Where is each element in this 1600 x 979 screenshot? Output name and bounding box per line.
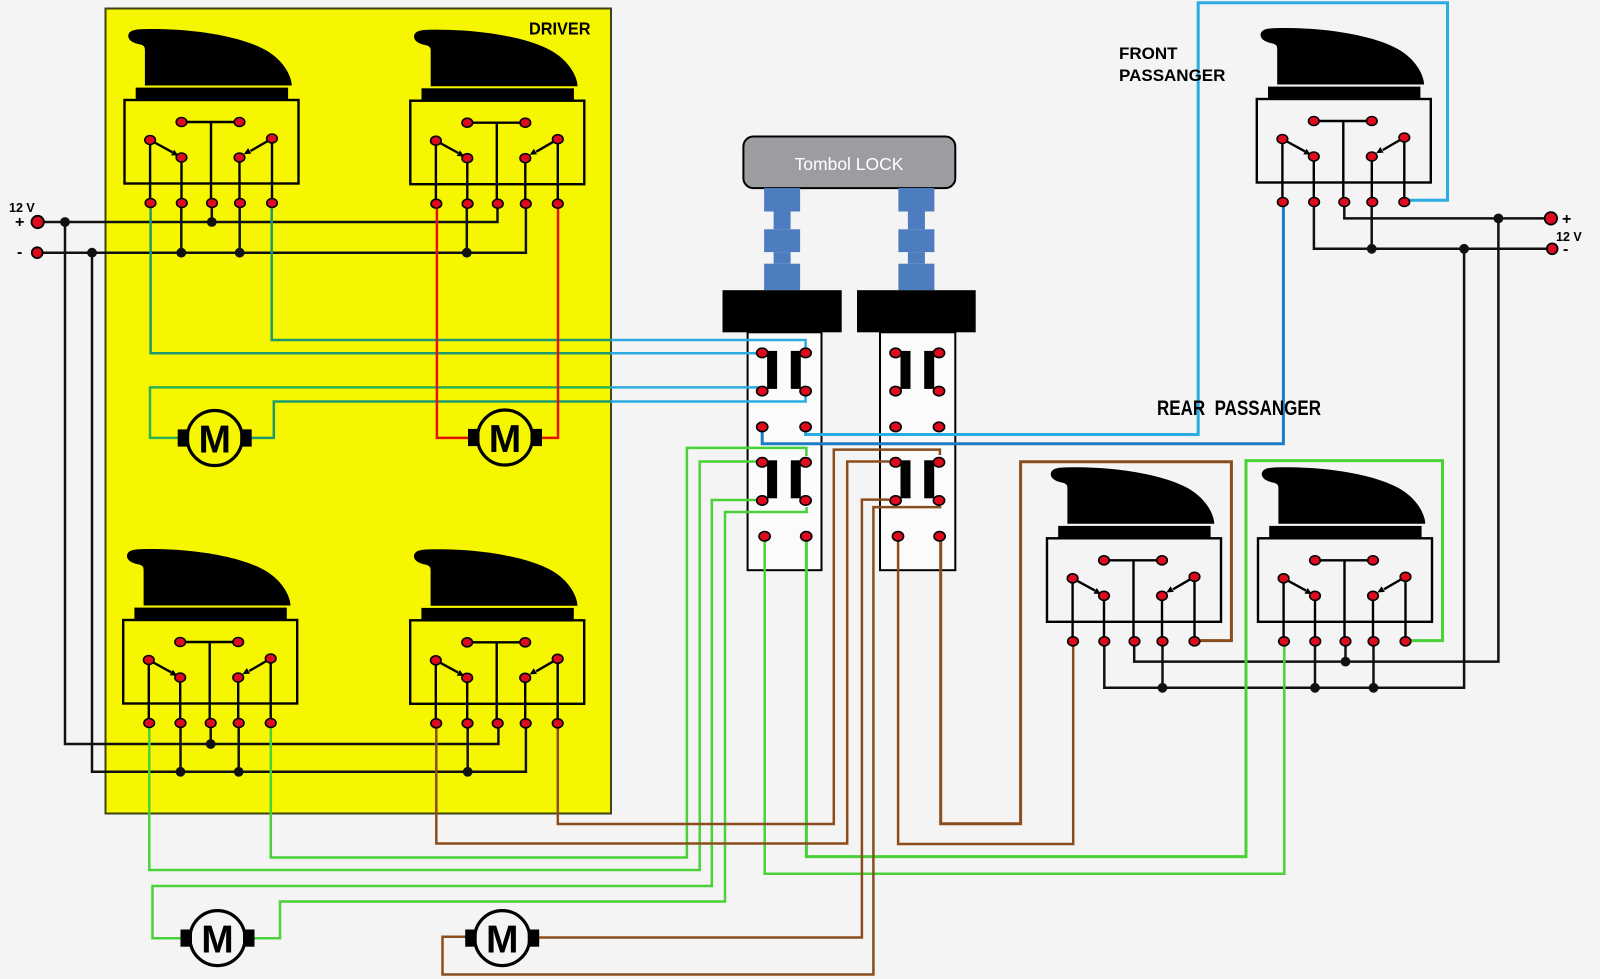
wire motor4 left to connector B lower bot-right (brown): [443, 506, 941, 975]
svg-text:FRONT: FRONT: [1119, 44, 1178, 63]
wire connector B bottom-right to rear1 pin5 loop (brown): [941, 462, 1232, 824]
motor M1 (driver window): [178, 411, 252, 466]
wire sw2 pin1 to motor2 left (red): [437, 204, 468, 438]
wire sw2 pin5 to motor2 right (red): [542, 204, 558, 438]
wire rear2 pin4 drop: [1372, 642, 1375, 688]
rocker switch SW4 (driver rear-right): [410, 549, 584, 728]
junction dot + bus / left drop: [60, 217, 70, 227]
Tombol LOCK button box: [743, 137, 955, 189]
wire connector A bottom-left to rear2 pin1 (green): [765, 541, 1285, 874]
junction dot - bus / left drop: [87, 248, 97, 258]
wire motor1 left to connector A (yellow part): [150, 387, 611, 438]
wire motor1 right to connector A (yellow part): [251, 402, 611, 438]
lock connector stem A (blue): [764, 188, 800, 290]
junction dot lower - bus / sw3 pin2: [176, 767, 186, 777]
wire sw3 pin2 drop: [179, 724, 182, 772]
wire front passanger pin3 to 12V+: [1344, 203, 1545, 218]
svg-text:PASSANGER: PASSANGER: [1119, 66, 1225, 85]
wire connector A mid-left to front passanger pin1 (blue): [762, 203, 1283, 444]
wire rear2 pin2 drop: [1314, 642, 1317, 688]
junction dot right - / fp pin4: [1367, 244, 1377, 254]
wire motor1 right to connector A (white part): [611, 396, 806, 402]
wire rear1 pin4 drop: [1161, 642, 1164, 688]
wire sw3 pin5 to connector A lower top-right (green): [271, 448, 807, 858]
wire motor3 right to connector A lower bot-right (green): [249, 507, 807, 938]
connector B cap (black): [857, 290, 976, 332]
wire motor1 left to connector A (white part): [611, 387, 761, 389]
junction dot rear2 pin4: [1369, 683, 1379, 693]
wire + bus from 12V+ to driver sw2 pin3: [43, 205, 498, 222]
lock connector stem B (blue): [898, 188, 934, 290]
svg-text:DRIVER: DRIVER: [529, 19, 591, 39]
junction dot - bus / sw2 pin2: [462, 248, 472, 258]
wire rear2 pin3 drop: [1344, 642, 1347, 662]
connector B contacts: [890, 348, 945, 541]
svg-text:-: -: [17, 244, 22, 261]
wire sw3 pin4 drop: [237, 724, 240, 772]
wire right + feed down to rear sw pin3 line: [1134, 218, 1498, 661]
12V left + terminal: [32, 216, 44, 228]
12V left - terminal: [32, 247, 43, 258]
wire sw3 pin1 to connector A lower top-left (green): [149, 462, 756, 871]
junction dot rear2 pin3: [1341, 657, 1351, 667]
rocker switch REAR2 (rear passanger right): [1258, 467, 1432, 646]
junction dot - bus / sw1 pin4: [235, 248, 245, 258]
wire sw2 pin2 drop: [466, 204, 469, 253]
junction dot lower + bus / sw3 pin3: [206, 739, 216, 749]
wire sw4 pin5 to connector B lower top-right (brown): [558, 450, 940, 824]
wire sw4 pin2 drop: [466, 724, 469, 772]
svg-text:Tombol LOCK: Tombol LOCK: [795, 154, 904, 174]
svg-text:12 V: 12 V: [1556, 230, 1582, 244]
connector B body: [880, 332, 955, 570]
junction dot - bus / sw1 pin2: [176, 248, 186, 258]
junction dot right - / drop: [1459, 244, 1469, 254]
rocker switch REAR1 (rear passanger left): [1047, 467, 1221, 646]
wire right - feed down to rear sw pin2/4 line: [1104, 249, 1464, 688]
wire + feed to lower row (left vertical): [65, 222, 498, 744]
wire sw1 pin5 to connector A (yellow part): [272, 204, 611, 340]
svg-text:12 V: 12 V: [9, 201, 35, 215]
svg-text:+: +: [1562, 211, 1571, 228]
rocker switch SW3 (driver rear-left): [123, 549, 297, 728]
wire motor3 left to connector A lower bot-left (green): [153, 500, 757, 938]
wire - bus from 12V- to driver sw2 pin4: [42, 205, 526, 253]
wire sw1 pin4 drop: [238, 204, 241, 253]
junction dot lower - bus / sw4 pin2: [463, 767, 473, 777]
rocker switch SW1 (driver front-left): [125, 29, 299, 208]
rocker switch SW2 (driver front-right): [410, 30, 584, 209]
wire connector A bottom-right to rear2 pin5 loop (green): [806, 461, 1442, 857]
svg-text:+: +: [15, 214, 24, 231]
svg-text:REAR PASSANGER: REAR PASSANGER: [1157, 397, 1321, 420]
junction dot + bus / sw1 pin3: [207, 217, 217, 227]
motor M3 (rear left window): [181, 911, 255, 966]
wire sw3 pin3 drop: [209, 724, 212, 744]
connector A contacts: [757, 348, 812, 541]
wire connector A mid-right to front passanger loop (cyan): [806, 3, 1448, 435]
wire motor4 right to connector B lower bot-left (brown): [539, 500, 889, 938]
wire sw4 pin1 to connector B lower top-left (brown): [436, 462, 889, 844]
junction dot lower - bus / sw3 pin4: [234, 767, 244, 777]
connector A body: [748, 332, 822, 570]
wire front passanger pin2 to 12V-: [1314, 203, 1547, 249]
wire fp pin4 drop: [1370, 203, 1373, 249]
junction dot rear1 pin4: [1158, 683, 1168, 693]
12V right - terminal: [1547, 243, 1558, 254]
driver panel (yellow): [106, 9, 612, 814]
wire sw1 pin1 to connector A (white part): [611, 352, 757, 355]
12V right + terminal: [1545, 212, 1557, 224]
connector A cap (black): [723, 290, 842, 332]
wire sw1 pin3 drop: [211, 204, 214, 222]
junction dot right + / drop: [1494, 214, 1504, 224]
wire sw1 pin1 to connector A (yellow part): [151, 204, 611, 353]
wire connector B bottom-left to rear1 pin1 (brown): [898, 541, 1073, 844]
motor M4 (rear right window): [465, 911, 539, 966]
rocker switch FRONT PASSANGER: [1257, 28, 1431, 207]
wire - feed to lower row (left vertical): [92, 253, 526, 772]
junction dot rear2 pin2: [1310, 683, 1320, 693]
wire sw1 pin2 drop: [180, 204, 183, 253]
motor M2 (front passanger window): [468, 410, 542, 465]
svg-text:-: -: [1563, 241, 1568, 258]
wire sw1 pin5 to connector A (white part): [611, 340, 806, 348]
